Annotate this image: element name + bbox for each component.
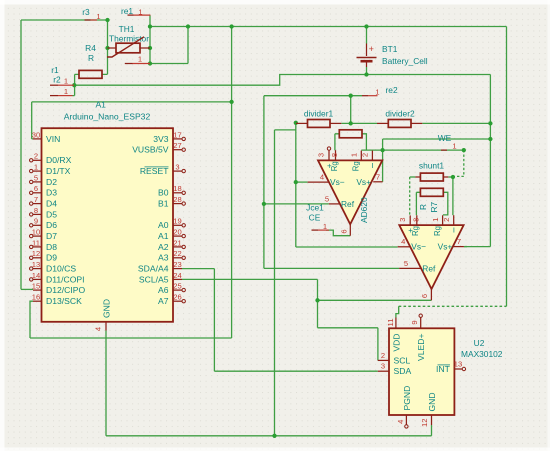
wire WE net horizontal <box>383 138 491 140</box>
svg-text:A6: A6 <box>158 285 169 295</box>
svg-text:B1: B1 <box>158 199 169 209</box>
U2 pin 3 SDA stub <box>378 370 389 372</box>
svg-text:D11/COPI: D11/COPI <box>46 274 85 284</box>
wire loop to label 1 <box>150 27 188 64</box>
svg-text:15: 15 <box>32 282 40 291</box>
label CE stub <box>312 229 319 231</box>
amp1 pin 7 stub <box>373 181 382 183</box>
svg-text:2: 2 <box>381 351 385 360</box>
svg-text:shunt1: shunt1 <box>419 161 444 171</box>
svg-text:7: 7 <box>376 173 380 182</box>
svg-text:r1: r1 <box>51 65 59 75</box>
pin 7 D4 stub <box>33 203 42 205</box>
pin 6 D3 stub <box>33 192 42 194</box>
svg-text:A0: A0 <box>158 220 169 230</box>
pin 8 D5 stub <box>33 213 42 215</box>
svg-text:divider2: divider2 <box>385 108 415 118</box>
svg-text:Battery_Cell: Battery_Cell <box>382 56 428 66</box>
pin 26 A7 stub <box>173 300 182 302</box>
svg-text:Rg: Rg <box>330 161 339 171</box>
svg-text:1: 1 <box>375 87 379 96</box>
TH1 body <box>116 43 140 53</box>
svg-text:r3: r3 <box>82 7 90 17</box>
wire bottom ground rail <box>106 435 432 437</box>
svg-text:13: 13 <box>32 260 40 269</box>
junction <box>380 148 384 152</box>
junction <box>349 94 353 98</box>
wire r2 label links <box>73 74 108 95</box>
pin 5 D2 stub <box>33 181 42 183</box>
divider1 right pin <box>330 122 341 124</box>
U2 pin 13 INT stub <box>454 368 462 370</box>
wire into pin 15 <box>21 288 33 290</box>
svg-text:Thermistor: Thermistor <box>109 33 149 43</box>
wire from D13/SCK down <box>30 301 33 338</box>
svg-text:D8: D8 <box>46 242 57 252</box>
amp2 pin 1 stub <box>442 215 444 225</box>
svg-text:1: 1 <box>138 55 142 64</box>
svg-text:7: 7 <box>457 237 461 246</box>
pin 25 A6 stub <box>173 289 182 291</box>
wire right rail x=490 <box>489 75 491 247</box>
wire to amp2 Vs+ pin7 <box>464 246 491 248</box>
svg-text:I: I <box>372 161 374 170</box>
label r3 stub <box>85 19 91 21</box>
svg-text:D2: D2 <box>46 177 57 187</box>
svg-text:18: 18 <box>173 184 181 193</box>
wire battery top link <box>366 27 368 44</box>
svg-text:11: 11 <box>386 319 395 327</box>
svg-text:25: 25 <box>173 282 181 291</box>
label r2 lead <box>58 84 74 86</box>
svg-text:3: 3 <box>398 218 407 222</box>
wire right-most rail down <box>506 27 508 307</box>
resistor R4 body <box>79 70 102 78</box>
wire shunt to amp2 pin2 <box>452 177 454 215</box>
svg-text:WE: WE <box>438 133 452 143</box>
svg-text:SCL: SCL <box>394 355 411 365</box>
wire down to MAX30102 SCL <box>318 279 378 360</box>
svg-text:Vs−: Vs− <box>411 242 426 252</box>
label 1 lower lead <box>58 95 73 97</box>
svg-text:re1: re1 <box>121 6 133 16</box>
divider2 left pin <box>377 122 388 124</box>
op-amp second body <box>399 225 463 289</box>
amp1 pin 5 stub <box>329 203 340 205</box>
svg-text:TH1: TH1 <box>119 24 135 34</box>
label r2 stub <box>50 84 58 86</box>
svg-text:SCL/A5: SCL/A5 <box>139 274 169 284</box>
label 1 lead <box>133 63 151 65</box>
wire re2 row <box>264 95 362 97</box>
wire to amp1 Ref pin5 <box>264 203 329 205</box>
battery BT1 <box>366 44 368 57</box>
wire battery bottom link <box>366 67 368 75</box>
wire top supply rail <box>150 26 507 28</box>
svg-text:1: 1 <box>431 218 440 222</box>
svg-text:SDA/A4: SDA/A4 <box>138 264 169 274</box>
junction <box>364 24 368 28</box>
wire Jce1 label to amp1 out <box>326 230 350 236</box>
wire shunt left link <box>410 176 416 178</box>
svg-text:R4: R4 <box>85 43 96 53</box>
resistor divider2 body <box>388 120 411 128</box>
label 1 stub <box>125 63 133 65</box>
pin 11 D8 stub <box>33 246 42 248</box>
svg-text:3: 3 <box>381 362 385 371</box>
wire y=300 to amp2 out <box>318 299 432 301</box>
amp1 pin 2 stub <box>371 151 373 161</box>
svg-text:Rg: Rg <box>411 226 420 236</box>
svg-text:11: 11 <box>32 238 40 247</box>
svg-text:20: 20 <box>173 228 181 237</box>
label WE stub <box>441 149 447 151</box>
amp1 pin 6 stub <box>349 224 351 235</box>
pin 21 A2 stub <box>173 246 182 248</box>
junction <box>72 83 76 87</box>
svg-text:GND: GND <box>427 392 437 411</box>
wire Rg right loop <box>362 134 366 150</box>
wire divider1-divider2 link <box>341 122 377 124</box>
op-amp AD620 (first) body <box>318 160 382 224</box>
TH1 left pin <box>108 47 117 49</box>
svg-text:r2: r2 <box>53 74 61 84</box>
svg-text:Jce1: Jce1 <box>306 202 324 212</box>
svg-text:1: 1 <box>64 87 68 96</box>
wire net r3 top-left horizontal <box>21 19 108 21</box>
junction <box>364 72 368 76</box>
junction <box>105 18 109 22</box>
wire pin7 amp2 link <box>464 246 467 248</box>
svg-text:3V3: 3V3 <box>153 134 169 144</box>
wire VDD feed (dashed) <box>399 305 507 307</box>
svg-text:2: 2 <box>34 152 38 161</box>
pin 17 3V3 stub <box>173 138 182 140</box>
svg-text:D10/CS: D10/CS <box>46 264 76 274</box>
svg-text:U2: U2 <box>474 338 485 348</box>
BT1 short plate <box>361 60 373 63</box>
svg-text:8: 8 <box>411 218 420 222</box>
pin 3 RESET stub <box>173 170 182 172</box>
svg-text:5: 5 <box>325 194 329 203</box>
svg-text:RESET: RESET <box>140 166 169 176</box>
svg-text:4: 4 <box>320 173 324 182</box>
svg-text:5: 5 <box>404 259 408 268</box>
junction <box>349 121 353 125</box>
svg-text:R: R <box>88 53 94 63</box>
svg-text:2: 2 <box>442 218 451 222</box>
junction <box>294 180 298 184</box>
svg-text:16: 16 <box>32 293 40 302</box>
wire horizontal y=338 <box>30 337 232 339</box>
svg-text:VIN: VIN <box>46 134 60 144</box>
svg-text:19: 19 <box>173 217 181 226</box>
label re1 stub <box>128 14 134 16</box>
pin 9 D6 stub <box>33 224 42 226</box>
junction <box>105 46 109 50</box>
wire x=296 vertical <box>295 123 297 247</box>
svg-text:4: 4 <box>93 327 102 331</box>
svg-text:6: 6 <box>420 294 429 298</box>
junction <box>272 434 276 438</box>
svg-text:D1/TX: D1/TX <box>46 166 71 176</box>
svg-text:D13/SCK: D13/SCK <box>46 296 82 306</box>
svg-text:22: 22 <box>173 249 181 258</box>
svg-text:B0: B0 <box>158 188 169 198</box>
U2 pin 11 VDD stub <box>395 318 397 329</box>
svg-text:7: 7 <box>34 195 38 204</box>
pin 28 B1 stub <box>173 203 182 205</box>
IC A1 Arduino_Nano_ESP32 body <box>42 128 174 322</box>
wire left-mid rail x=264 <box>263 96 265 269</box>
svg-text:D0/RX: D0/RX <box>46 155 72 165</box>
svg-text:D12/CIPO: D12/CIPO <box>46 285 85 295</box>
wire shunt right link <box>448 176 453 178</box>
svg-text:I: I <box>453 226 455 235</box>
svg-text:D3: D3 <box>46 188 57 198</box>
U2 pin 2 SCL stub <box>378 359 389 361</box>
junction <box>451 175 455 179</box>
wire divider2 right <box>422 122 490 124</box>
pin 24 SCL/A5 stub <box>173 278 182 280</box>
amp2 pin 4 stub <box>398 246 411 248</box>
TH1 right pin <box>140 47 150 49</box>
wire re2 to divider row <box>350 96 352 124</box>
svg-text:VLED+: VLED+ <box>416 334 426 361</box>
svg-text:8: 8 <box>34 206 38 215</box>
svg-text:D5: D5 <box>46 209 57 219</box>
svg-text:1: 1 <box>96 12 100 21</box>
svg-text:GND: GND <box>102 299 112 318</box>
svg-text:re2: re2 <box>386 85 398 95</box>
wire jog to divider1 left <box>275 129 296 131</box>
wire down to shunt right (dashed) <box>453 150 464 176</box>
junction <box>148 24 152 28</box>
svg-text:1: 1 <box>350 153 359 157</box>
svg-text:14: 14 <box>32 271 40 280</box>
wire R7 left loop to pin8 <box>416 192 420 215</box>
svg-text:A1: A1 <box>95 100 106 110</box>
svg-text:10: 10 <box>32 228 40 237</box>
wire shunt left to amp2 pin3 (dashed) <box>409 177 411 215</box>
svg-text:Vs−: Vs− <box>330 177 345 187</box>
pin 20 A1 stub <box>173 235 182 237</box>
svg-text:6: 6 <box>339 229 348 233</box>
amp2 pin 8 stub <box>416 215 418 225</box>
svg-text:divider1: divider1 <box>304 108 334 118</box>
svg-text:6: 6 <box>34 184 38 193</box>
svg-text:Rg: Rg <box>352 161 361 171</box>
svg-text:28: 28 <box>173 195 181 204</box>
resistor Rg (amp1 gain) body <box>339 130 362 138</box>
svg-text:1: 1 <box>34 163 38 172</box>
svg-text:13: 13 <box>454 359 462 368</box>
wire mid rail x=231 down <box>231 27 233 339</box>
label CE lead <box>318 229 329 231</box>
wire to amp1 Vs- pin4 <box>296 181 308 183</box>
svg-text:A2: A2 <box>158 242 169 252</box>
pin 27 VUSB/5V stub <box>173 149 182 151</box>
pin 30 VIN stub <box>33 138 42 140</box>
svg-text:9: 9 <box>410 320 419 324</box>
wire re1 vertical <box>149 15 151 63</box>
svg-text:Vs+: Vs+ <box>438 242 453 252</box>
label re2 stub <box>362 95 368 97</box>
svg-text:12: 12 <box>420 419 429 427</box>
amp1 pin 3 stub <box>328 151 330 161</box>
svg-text:12: 12 <box>32 249 40 258</box>
junction <box>262 202 266 206</box>
wire amp1 pin7 vertical <box>382 139 384 182</box>
svg-text:A7: A7 <box>158 296 169 306</box>
pin 22 A3 stub <box>173 257 182 259</box>
wire R7 right loop to pin1 <box>443 192 448 215</box>
svg-text:2: 2 <box>361 153 370 157</box>
pin 13 D10/CS stub <box>33 268 42 270</box>
U2 pin 9 VLED+ stub <box>420 318 422 329</box>
wire Rg left loop to pin8 <box>335 134 339 150</box>
label re1 lead <box>134 14 151 16</box>
svg-text:4: 4 <box>401 237 405 246</box>
wire rail x=274 down to ground <box>274 130 276 436</box>
divider1 left pin <box>296 122 308 124</box>
svg-text:Arduino_Nano_ESP32: Arduino_Nano_ESP32 <box>64 112 151 122</box>
junction <box>488 121 492 125</box>
svg-text:Vs+: Vs+ <box>356 177 371 187</box>
svg-text:9: 9 <box>34 217 38 226</box>
svg-text:PGND: PGND <box>402 386 412 411</box>
label 1 lower stub <box>50 95 58 97</box>
wire MAX30102 GND link <box>431 425 433 436</box>
svg-text:4: 4 <box>396 420 405 424</box>
svg-text:R7: R7 <box>429 201 439 212</box>
svg-text:MAX30102: MAX30102 <box>461 349 503 359</box>
pin 2 D0/RX stub <box>33 159 42 161</box>
resistor divider1 body <box>308 120 331 128</box>
divider2 right pin <box>411 122 422 124</box>
svg-text:Ref: Ref <box>422 264 436 274</box>
svg-text:VUSB/5V: VUSB/5V <box>132 145 169 155</box>
shunt1 right pin <box>443 176 448 178</box>
U2 pin 12 GND stub <box>431 415 433 425</box>
svg-text:8: 8 <box>330 153 339 157</box>
TH1 diagonal strike <box>107 37 144 57</box>
junction <box>294 121 298 125</box>
label re2 lead <box>368 95 378 97</box>
wire into VDD pin <box>396 306 399 317</box>
svg-text:17: 17 <box>173 130 181 139</box>
svg-text:24: 24 <box>173 271 181 280</box>
svg-text:SDA: SDA <box>394 366 412 376</box>
pin 14 D11/COPI stub <box>33 278 42 280</box>
junction <box>462 148 466 152</box>
junction <box>488 137 492 141</box>
wire thermistor left branch <box>107 20 109 74</box>
wire SDA/A4 to MAX30102 SDA <box>182 269 378 372</box>
pin 19 A0 stub <box>173 224 182 226</box>
svg-text:R: R <box>418 204 428 210</box>
junction <box>186 24 190 28</box>
amp2 pin 3 stub <box>409 215 411 225</box>
svg-text:5: 5 <box>34 173 38 182</box>
svg-text:30: 30 <box>32 130 40 139</box>
svg-text:Rg: Rg <box>433 226 442 236</box>
svg-text:A1: A1 <box>158 231 169 241</box>
wire left rail to D12/CIPO <box>20 20 22 289</box>
amp2 pin 6 stub <box>430 289 432 300</box>
junction <box>315 298 319 302</box>
amp2 pin 5 stub <box>399 267 421 269</box>
junction <box>229 100 233 104</box>
resistor shunt1 body <box>420 173 443 181</box>
svg-text:A3: A3 <box>158 253 169 263</box>
wire down into VIN <box>32 102 33 139</box>
wire VIN row <box>32 101 232 103</box>
resistor R7 body <box>420 188 443 196</box>
amp2 pin 7 stub <box>453 246 464 248</box>
pin 23 SDA/A4 stub <box>173 268 182 270</box>
pin 1 D1/TX stub <box>33 170 42 172</box>
svg-text:21: 21 <box>173 238 181 247</box>
svg-text:AD620: AD620 <box>359 197 369 223</box>
svg-text:27: 27 <box>173 141 181 150</box>
svg-text:CE: CE <box>309 213 321 223</box>
wire r1/r2 vertical <box>74 74 76 95</box>
amp2 pin 2 stub <box>453 215 455 225</box>
wire to amp2 Vs- pin4 <box>296 246 398 248</box>
pin 18 B0 stub <box>173 192 182 194</box>
junction <box>148 46 152 50</box>
IC U2 MAX30102 body <box>389 328 454 415</box>
label r3 lead <box>91 19 98 21</box>
wire Arduino GND down <box>105 331 107 436</box>
shunt1 left pin <box>415 176 420 178</box>
svg-text:1: 1 <box>452 142 456 151</box>
junction <box>229 24 233 28</box>
svg-text:23: 23 <box>173 260 181 269</box>
wire battery minus rail <box>74 75 490 86</box>
U2 pin 4 PGND stub <box>405 415 407 425</box>
pin 15 D12/CIPO stub <box>33 289 42 291</box>
svg-text:D9: D9 <box>46 253 57 263</box>
junction <box>148 61 152 65</box>
svg-text:26: 26 <box>173 293 181 302</box>
svg-text:BT1: BT1 <box>382 44 398 54</box>
pin 10 D7 stub <box>33 235 42 237</box>
svg-text:3: 3 <box>175 163 179 172</box>
svg-text:3: 3 <box>317 153 326 157</box>
svg-text:VDD: VDD <box>391 334 401 352</box>
svg-text:+: + <box>369 44 374 54</box>
amp1 pin 8 stub <box>335 150 337 160</box>
svg-text:INT: INT <box>436 364 451 374</box>
svg-text:D4: D4 <box>46 199 57 209</box>
BT1 long plate <box>357 57 377 59</box>
wire y=150 row pins 1-2 to shunt <box>361 149 464 151</box>
pin 16 D13/SCK stub <box>33 300 42 302</box>
svg-text:D6: D6 <box>46 220 57 230</box>
svg-text:1: 1 <box>64 76 68 85</box>
pin 4 GND stub (Arduino) <box>105 322 107 331</box>
wire to amp2 Ref pin5 <box>264 267 399 269</box>
svg-text:Ref: Ref <box>341 199 355 209</box>
pin 12 D9 stub <box>33 257 42 259</box>
amp1 pin 4 stub <box>308 181 329 183</box>
wire SCL/A5 row <box>182 278 318 280</box>
amp1 pin 1 stub <box>360 151 362 161</box>
svg-text:D7: D7 <box>46 231 57 241</box>
